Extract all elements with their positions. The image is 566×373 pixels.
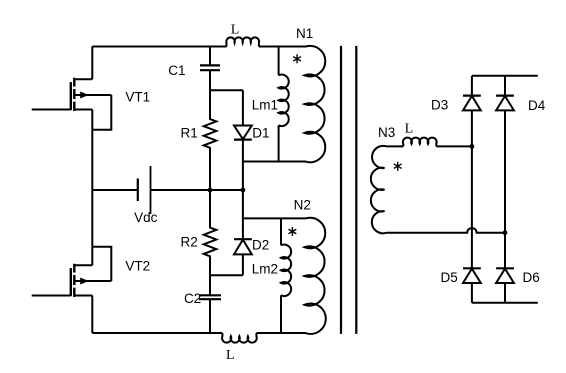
svg-text:VT2: VT2 (125, 258, 150, 273)
svg-text:C2: C2 (184, 291, 201, 306)
node dot mid rail 1 (208, 188, 213, 193)
svg-text:D5: D5 (441, 270, 458, 285)
inductor L (right) (403, 138, 437, 147)
node dot mid rail 2 (241, 188, 246, 193)
inductor L (top) (226, 37, 259, 46)
wire L to bridge (436, 145, 472, 147)
battery Vdc (137, 179, 139, 202)
capacitor C1 (209, 47, 211, 66)
svg-text:N1: N1 (296, 26, 313, 41)
wire bottom rail right (256, 332, 306, 334)
svg-text:N3: N3 (378, 125, 395, 140)
diode D1 (242, 90, 244, 125)
diode D2 (242, 190, 244, 239)
svg-text:R2: R2 (181, 235, 198, 250)
winding N1 (305, 46, 326, 162)
diode D4 (496, 94, 514, 96)
wire N1 bottom tee (243, 161, 306, 163)
wire N3 top to L (387, 145, 404, 147)
wire mid rail right (210, 189, 243, 191)
diode D6 (496, 267, 514, 269)
bridge top rail (472, 75, 538, 77)
diode D3 (463, 94, 481, 96)
wire bottom rail left (92, 332, 222, 334)
svg-text:VT1: VT1 (125, 89, 150, 104)
wire left rail upper (91, 47, 93, 80)
svg-text:L: L (405, 121, 414, 136)
wire N2 top tee (243, 217, 306, 219)
svg-text:D3: D3 (431, 97, 448, 112)
winding N3 (371, 146, 387, 233)
wire top rail left (92, 46, 226, 48)
inductor L (bottom) (222, 333, 257, 343)
bridge bottom rail (472, 302, 538, 304)
transistor VT1 (71, 78, 75, 111)
wire top rail right (259, 46, 306, 48)
capacitor C2 (209, 275, 211, 295)
bridge left vertical (471, 76, 473, 303)
polarity asterisk N3 (394, 162, 402, 171)
svg-text:D6: D6 (523, 270, 540, 285)
svg-text:D1: D1 (252, 126, 269, 141)
node dot bridge right (503, 230, 508, 235)
svg-text:R1: R1 (181, 125, 198, 140)
transformer core (341, 46, 356, 334)
svg-text:N2: N2 (294, 198, 311, 213)
svg-text:L: L (231, 23, 240, 38)
wire mid rail left (92, 189, 210, 191)
diode D5 (463, 267, 481, 269)
wire source VT2 to bottom rail (91, 296, 93, 334)
svg-text:Lm2: Lm2 (252, 262, 278, 277)
wire left rail mid-lower (91, 190, 93, 265)
inductor Lm2 (280, 218, 282, 245)
wire source VT1 to mid rail (91, 110, 93, 191)
bridge right vertical (504, 76, 506, 303)
wire R2-C2 junction to D2 (210, 274, 243, 276)
svg-text:C1: C1 (168, 63, 185, 78)
inductor Lm1 (278, 47, 280, 76)
transistor VT2 (71, 264, 75, 297)
wire gate VT1 (32, 109, 71, 111)
winding N2 (305, 218, 326, 334)
wire N3 bottom with hop (387, 228, 506, 233)
svg-text:Vdc: Vdc (134, 210, 158, 225)
svg-text:D2: D2 (252, 237, 269, 252)
svg-text:Lm1: Lm1 (252, 97, 278, 112)
polarity asterisk N1 (293, 54, 301, 63)
node dot bridge left (470, 144, 475, 149)
svg-text:D4: D4 (528, 98, 546, 113)
wire C1 junction to D1 branch (210, 89, 243, 91)
polarity asterisk N2 (289, 227, 297, 236)
resistor R1 (204, 90, 217, 190)
svg-text:L: L (226, 348, 235, 363)
resistor R2 (204, 190, 217, 275)
wire gate VT2 (32, 295, 71, 297)
